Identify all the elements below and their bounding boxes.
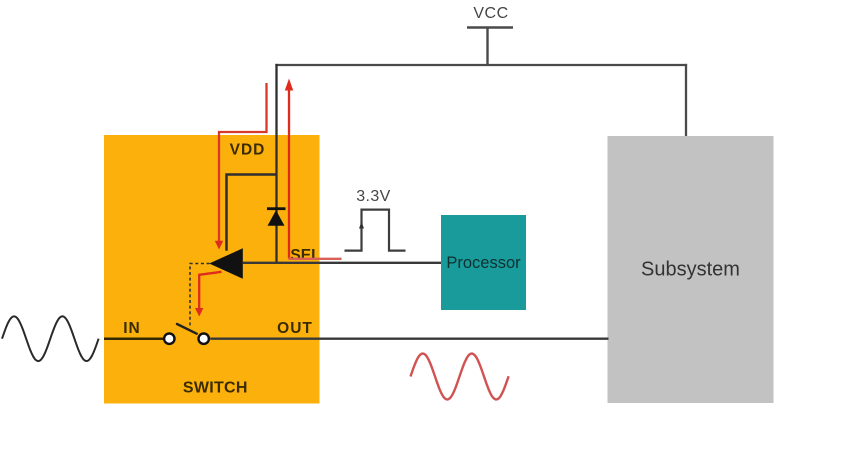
input sine waveform	[2, 316, 99, 361]
block Subsystem body	[608, 136, 774, 403]
block SWITCH body	[104, 135, 320, 404]
svg-text:Processor: Processor	[446, 254, 521, 272]
svg-text:VCC: VCC	[473, 5, 508, 22]
red current path B arrowhead	[285, 79, 293, 91]
svg-text:Subsystem: Subsystem	[641, 259, 740, 281]
diode D1 anode triangle	[268, 210, 285, 226]
wire gate branch	[227, 175, 277, 251]
switch SW1 contact right	[199, 334, 209, 344]
wire IN	[104, 337, 163, 340]
wire top bus	[275, 64, 687, 66]
svg-text:3.3V: 3.3V	[356, 188, 391, 205]
red SEL overlay wire	[289, 258, 342, 260]
driver U1 triangle	[209, 248, 243, 278]
wire subsystem drop	[685, 64, 687, 137]
red current path A wire	[219, 83, 267, 242]
dashed control link	[190, 264, 210, 327]
red current path C wire	[199, 272, 221, 309]
diode D1 cathode bar	[267, 207, 286, 210]
red current path A arrowhead	[215, 241, 223, 250]
wire OUT	[210, 338, 608, 340]
red current path B wire	[288, 90, 290, 259]
pulse edge arrowhead	[359, 222, 364, 229]
output sine waveform red	[411, 354, 509, 400]
svg-text:SEL: SEL	[290, 247, 320, 264]
power symbol VCC bar	[467, 26, 513, 29]
red current path C arrowhead	[195, 308, 203, 317]
svg-text:VDD: VDD	[230, 142, 266, 159]
block Processor body	[441, 215, 526, 310]
wire drain vertical	[275, 64, 277, 264]
svg-text:IN: IN	[123, 320, 141, 337]
svg-text:SWITCH: SWITCH	[183, 380, 248, 397]
switch SW1 lever	[177, 324, 197, 334]
pulse waveform	[345, 210, 406, 251]
wire SEL	[243, 262, 441, 264]
svg-text:OUT: OUT	[277, 320, 313, 337]
wire VCC stem	[486, 28, 488, 66]
switch SW1 contact left	[164, 334, 174, 344]
